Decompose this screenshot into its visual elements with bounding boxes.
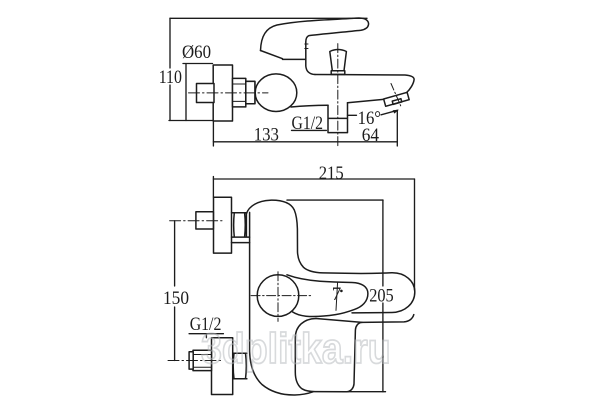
body outline front [250,212,313,395]
svg-text:133: 133 [254,125,279,146]
handle joint ticks [305,44,308,49]
svg-text:215: 215 [319,163,344,184]
lower hole outline [295,315,414,392]
handle nose underside [261,51,306,60]
wire G1/2 underline leader [189,334,223,338]
wire hole top edge [316,319,362,323]
wire 215 dimension line [213,178,414,180]
wire aerator extension [396,111,398,146]
svg-text:Ø60: Ø60 [182,42,211,63]
bottom center dash-dot [168,360,221,362]
svg-text:7: 7 [332,284,342,305]
body ball [255,74,297,112]
wire plate extension [212,121,214,146]
wire 215 right extension [414,179,416,290]
wire Ø60 underline leader [183,64,213,121]
wire 205 top extension [287,199,383,201]
lever stadium [287,275,368,317]
top center dash-dot [170,220,222,222]
top wall plate front [214,197,232,253]
spout underside right of outlet [348,99,384,103]
spout outer cap [352,273,415,313]
svg-text:205: 205 [369,286,394,307]
spout underside left of outlet [291,105,328,107]
wire 215 left extension [212,177,214,198]
wire 133/64 dimension line [213,141,397,143]
svg-text:150: 150 [163,288,189,309]
bottom collar barrel [233,353,247,378]
cartridge cap left edge [306,42,315,75]
wire dim extension top [170,17,367,19]
inlet pipe [197,84,215,103]
collar [246,81,255,103]
watermark 3dplitka.ru [201,328,463,371]
collar redrawn over ball [246,81,255,103]
bottom inlet with hex [193,350,212,370]
svg-text:110: 110 [159,67,182,88]
spout top edge [315,75,414,93]
wall plate (escutcheon) side view [213,65,232,121]
shower outlet G1/2 [328,103,348,133]
top collar [232,213,250,237]
svg-text:16°: 16° [358,108,381,129]
body dome, flank and top line [247,200,392,273]
aerator tilted housing [384,92,410,106]
wire 205 bottom extension [348,391,386,393]
cartridge circle [257,275,299,317]
diverter axis dash-dot [337,44,339,147]
handle lever [261,18,369,50]
top inlet [196,212,214,229]
diverter knob [330,50,347,71]
wire 205 dimension line [382,200,384,392]
wire 110 vertical dimension line [169,18,171,120]
hex nut [233,78,246,107]
wire bottom extension to plate [169,120,214,122]
bottom wall plate [212,338,233,395]
center axis dash-dot top view [189,92,269,94]
lever 7deg line [336,282,338,310]
crosshair dash-dot [251,272,311,322]
wire 150 dimension line [174,221,176,361]
aerator axis dash-dot [391,84,401,106]
wire 16 leader [348,110,398,115]
